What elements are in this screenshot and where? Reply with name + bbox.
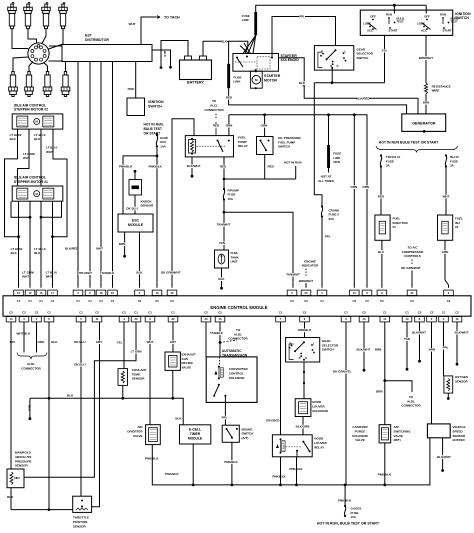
svg-text:20: 20 (305, 291, 308, 295)
svg-text:BRN: BRN (119, 242, 126, 246)
svg-text:RED: RED (378, 194, 385, 198)
svg-text:C1: C1 (122, 311, 126, 315)
svg-text:E-CELL: E-CELL (189, 428, 201, 432)
svg-text:RUN: RUN (386, 13, 392, 17)
svg-text:BLK: BLK (10, 137, 17, 141)
svg-text:PPL: PPL (10, 340, 16, 344)
svg-text:21: 21 (411, 291, 414, 295)
svg-text:PNK/BLK: PNK/BLK (165, 472, 179, 476)
svg-text:PNK/BLK: PNK/BLK (145, 457, 159, 461)
svg-text:SWITCH: SWITCH (357, 56, 369, 60)
svg-text:CONTROLS: CONTROLS (404, 254, 421, 258)
svg-text:HOT IN RUN,: HOT IN RUN, (144, 123, 164, 127)
svg-text:C2: C2 (430, 311, 434, 315)
svg-text:10: 10 (111, 291, 114, 295)
svg-text:BLK/RED: BLK/RED (356, 96, 370, 100)
svg-text:ALL TIMES: ALL TIMES (318, 179, 334, 183)
svg-text:BLK/WHT: BLK/WHT (357, 348, 371, 352)
svg-text:WHT: WHT (46, 150, 53, 154)
svg-text:(MIT): (MIT) (394, 438, 401, 442)
svg-text:VALVE: VALVE (133, 434, 143, 438)
svg-text:BLK: BLK (34, 251, 41, 255)
svg-text:SOLENOID: SOLENOID (229, 376, 246, 380)
svg-text:RED: RED (268, 164, 275, 168)
svg-text:RED: RED (226, 95, 233, 99)
svg-text:WIRE: WIRE (432, 89, 440, 93)
svg-text:YEL: YEL (382, 49, 388, 53)
svg-text:(A/T): (A/T) (242, 436, 249, 440)
svg-text:BLK: BLK (221, 39, 228, 43)
svg-text:SWITCHING: SWITCHING (394, 429, 412, 433)
svg-text:WHT: WHT (22, 275, 29, 279)
svg-text:C2: C2 (290, 299, 294, 303)
svg-text:D: D (337, 65, 339, 68)
svg-text:BLK: BLK (163, 51, 167, 58)
svg-text:SENSOR: SENSOR (15, 464, 29, 468)
svg-text:C1: C1 (47, 311, 51, 315)
svg-text:PNK/BLK: PNK/BLK (338, 499, 352, 503)
svg-text:IGNITION: IGNITION (148, 100, 164, 104)
svg-text:BUFFER: BUFFER (453, 438, 466, 442)
svg-text:BLK: BLK (51, 340, 58, 344)
svg-text:OFF: OFF (370, 14, 376, 18)
svg-text:BLK: BLK (299, 81, 306, 85)
svg-text:THROTTLE: THROTTLE (73, 516, 89, 520)
svg-text:C1: C1 (39, 299, 43, 303)
svg-text:C1: C1 (51, 299, 55, 303)
svg-text:AUTOMATIC: AUTOMATIC (222, 349, 242, 353)
svg-text:BLK/RED: BLK/RED (65, 247, 79, 251)
svg-text:C2: C2 (22, 311, 26, 315)
svg-text:C1: C1 (279, 311, 283, 315)
svg-text:GRN: GRN (442, 250, 449, 254)
svg-text:SOLENOID: SOLENOID (352, 434, 369, 438)
svg-text:C2: C2 (155, 299, 159, 303)
svg-text:DK GRN/YEL: DK GRN/YEL (333, 370, 352, 374)
svg-text:UNIT: UNIT (231, 260, 238, 264)
svg-text:LOCK: LOCK (417, 22, 425, 26)
svg-text:C1: C1 (320, 299, 324, 303)
svg-text:22: 22 (172, 317, 175, 321)
svg-text:PNK/BLK: PNK/BLK (224, 460, 238, 464)
svg-text:DK BLU: DK BLU (74, 340, 85, 344)
svg-text:SENSOR: SENSOR (455, 379, 469, 383)
svg-text:CANISTER: CANISTER (352, 425, 368, 429)
svg-text:CONVERTER: CONVERTER (229, 367, 249, 371)
svg-text:16: 16 (171, 291, 174, 295)
svg-text:C1: C1 (383, 311, 387, 315)
svg-text:TAN/WHT: TAN/WHT (286, 273, 300, 277)
svg-text:DIVERTER: DIVERTER (127, 429, 143, 433)
svg-text:C2: C2 (362, 311, 366, 315)
svg-text:PPL: PPL (325, 235, 331, 239)
svg-text:CONNECTOR: CONNECTOR (21, 366, 41, 370)
svg-text:LOUVER: LOUVER (312, 404, 325, 408)
svg-text:C1: C1 (344, 311, 348, 315)
svg-text:HOOD: HOOD (314, 437, 324, 441)
svg-text:GRY: GRY (96, 340, 102, 344)
svg-text:BLK/WHT: BLK/WHT (187, 164, 201, 168)
svg-text:DK BLU: DK BLU (74, 363, 85, 367)
svg-text:SWITCH: SWITCH (148, 105, 162, 109)
svg-text:STARTER: STARTER (264, 74, 281, 78)
svg-text:SENSOR: SENSOR (73, 524, 87, 528)
svg-text:ALCL: ALCL (210, 103, 218, 107)
svg-text:BLK: BLK (11, 251, 18, 255)
svg-text:C1: C1 (171, 311, 175, 315)
svg-text:DISTRIBUTOR: DISTRIBUTOR (85, 38, 109, 42)
svg-text:13: 13 (363, 317, 366, 321)
svg-text:CONNECTOR: CONNECTOR (204, 108, 224, 112)
svg-text:GRY/RED: GRY/RED (266, 418, 280, 422)
svg-text:EST: EST (85, 34, 93, 38)
svg-text:YEL: YEL (117, 341, 123, 345)
svg-text:C2: C2 (95, 311, 99, 315)
svg-text:SOLENOID: SOLENOID (281, 58, 300, 62)
svg-text:#2: #2 (455, 225, 459, 229)
svg-text:14: 14 (383, 317, 386, 321)
svg-text:WHT: WHT (96, 247, 103, 251)
svg-text:ORN/BLK: ORN/BLK (298, 328, 312, 332)
svg-text:ORN: ORN (261, 124, 268, 128)
svg-text:#1: #1 (393, 225, 397, 229)
svg-text:C2: C2 (455, 311, 459, 315)
svg-text:C1: C1 (405, 311, 409, 315)
svg-text:ORN: ORN (351, 185, 358, 189)
svg-text:TRANSMISSION: TRANSMISSION (222, 354, 248, 358)
svg-text:STEPPER MOTOR #2: STEPPER MOTOR #2 (14, 108, 48, 112)
svg-text:SWITCH: SWITCH (322, 348, 334, 352)
svg-text:BATTERY: BATTERY (187, 81, 205, 85)
svg-text:BRN: BRN (375, 348, 382, 352)
svg-text:SENSOR: SENSOR (132, 377, 146, 381)
svg-text:16: 16 (40, 291, 43, 295)
svg-text:MANIFOLD: MANIFOLD (15, 451, 32, 455)
svg-text:SENSOR: SENSOR (453, 434, 467, 438)
svg-text:LINK: LINK (242, 18, 250, 22)
svg-text:20: 20 (135, 317, 138, 321)
svg-text:ORN: ORN (333, 160, 340, 164)
svg-text:AIR: AIR (137, 425, 143, 429)
svg-text:PNK/BLK: PNK/BLK (149, 164, 163, 168)
svg-text:HOT IN RUN: HOT IN RUN (284, 161, 302, 165)
svg-text:BLK: BLK (7, 495, 14, 499)
svg-text:ENGINE CONTROL MODULE: ENGINE CONTROL MODULE (210, 305, 267, 310)
svg-text:SENSOR: SENSOR (141, 204, 155, 208)
svg-text:12: 12 (456, 317, 459, 321)
svg-text:23: 23 (205, 317, 208, 321)
svg-text:PPL: PPL (299, 15, 305, 19)
svg-text:BLK/ORN: BLK/ORN (296, 424, 310, 428)
svg-text:DK GRN/WHT: DK GRN/WHT (161, 271, 181, 275)
svg-text:VALVE: VALVE (355, 438, 365, 442)
svg-text:INDICATOR: INDICATOR (302, 264, 319, 268)
svg-text:10: 10 (353, 291, 356, 295)
svg-text:SOLENOID: SOLENOID (312, 409, 329, 413)
svg-text:PNK/BLK: PNK/BLK (272, 475, 286, 479)
svg-text:PPL: PPL (443, 346, 449, 350)
svg-text:10A: 10A (351, 515, 357, 519)
svg-text:RELAY: RELAY (238, 144, 248, 148)
svg-text:C1: C1 (134, 311, 138, 315)
svg-text:TAN: TAN (404, 337, 410, 341)
svg-text:18: 18 (100, 291, 103, 295)
svg-text:START: START (442, 29, 451, 33)
svg-text:BRN: BRN (429, 348, 436, 352)
svg-text:ABSOLUTE: ABSOLUTE (15, 455, 32, 459)
svg-text:16: 16 (219, 317, 222, 321)
svg-text:LOUVER: LOUVER (314, 441, 327, 445)
svg-text:14: 14 (10, 317, 13, 321)
svg-text:PNK/BLK: PNK/BLK (289, 467, 303, 471)
svg-text:RED: RED (220, 164, 227, 168)
svg-text:RUN: RUN (440, 13, 446, 17)
svg-text:LINK: LINK (234, 80, 242, 84)
svg-text:LOCK: LOCK (363, 22, 371, 26)
svg-text:DK GRN/WHT: DK GRN/WHT (401, 266, 421, 270)
svg-text:BLU: BLU (378, 250, 384, 254)
svg-text:N: N (299, 357, 301, 360)
svg-text:BLK: BLK (34, 137, 41, 141)
svg-text:PPL/WHT: PPL/WHT (79, 271, 93, 275)
svg-text:SWITCH: SWITCH (278, 145, 290, 149)
svg-text:C2: C2 (353, 299, 357, 303)
svg-text:C1: C1 (442, 311, 446, 315)
svg-text:C2: C2 (218, 311, 222, 315)
svg-text:10A: 10A (160, 144, 166, 148)
svg-text:10A: 10A (228, 197, 234, 201)
svg-text:BLK: BLK (27, 405, 31, 412)
svg-text:C2: C2 (410, 299, 414, 303)
svg-text:TO TACH: TO TACH (164, 15, 180, 19)
svg-text:BLK/WHT: BLK/WHT (412, 330, 426, 334)
svg-text:OR START: OR START (144, 131, 161, 135)
svg-text:PURGE: PURGE (355, 429, 366, 433)
svg-text:BRN/WHT: BRN/WHT (419, 56, 433, 60)
svg-text:C2: C2 (303, 311, 307, 315)
svg-text:PNK: PNK (128, 87, 135, 91)
svg-text:CONTROL: CONTROL (229, 371, 244, 375)
svg-text:BLK: BLK (175, 417, 182, 421)
svg-text:AIR: AIR (394, 425, 400, 429)
svg-text:C2: C2 (138, 299, 142, 303)
svg-text:PNK/BLK: PNK/BLK (378, 473, 392, 477)
svg-text:BLK: BLK (218, 277, 225, 281)
svg-text:RED: RED (213, 124, 220, 128)
svg-text:C1: C1 (76, 299, 80, 303)
svg-text:C2: C2 (204, 311, 208, 315)
svg-text:WHT: WHT (129, 22, 136, 26)
svg-text:IGNITION: IGNITION (455, 12, 471, 16)
svg-text:STEPPER MOTOR #1: STEPPER MOTOR #1 (14, 180, 48, 184)
svg-text:WHT/BLK: WHT/BLK (17, 332, 32, 336)
svg-text:C2: C2 (447, 299, 451, 303)
svg-text:BLK/WHT: BLK/WHT (455, 330, 469, 334)
svg-text:BRN/WHT: BRN/WHT (299, 279, 313, 283)
svg-text:WHT: WHT (443, 194, 450, 198)
svg-text:10: 10 (156, 291, 159, 295)
svg-text:ORN: ORN (362, 185, 369, 189)
svg-text:HOT IN RUN, BULB TEST OR START: HOT IN RUN, BULB TEST OR START (317, 522, 380, 526)
svg-text:TAN/BLK: TAN/BLK (210, 331, 224, 335)
svg-text:IDLE AIR CONTROL: IDLE AIR CONTROL (14, 103, 46, 107)
svg-text:START: START (388, 29, 397, 33)
svg-text:MODULE: MODULE (128, 223, 144, 227)
svg-text:TAN/WHT: TAN/WHT (217, 223, 231, 227)
svg-text:VALVE: VALVE (394, 434, 404, 438)
svg-text:C1: C1 (28, 299, 32, 303)
svg-text:CONNECTOR: CONNECTOR (401, 404, 421, 408)
svg-text:C2: C2 (418, 311, 422, 315)
svg-text:BLK: BLK (67, 394, 74, 398)
svg-text:RELAY: RELAY (314, 445, 324, 449)
svg-text:PPL: PPL (222, 415, 228, 419)
svg-text:TAN/BLK: TAN/BLK (101, 271, 115, 275)
svg-text:C2: C2 (35, 311, 39, 315)
svg-text:13: 13 (17, 291, 20, 295)
svg-text:BLK: BLK (136, 271, 143, 275)
svg-text:PRESSURE: PRESSURE (15, 459, 32, 463)
svg-text:C1: C1 (17, 299, 21, 303)
svg-text:C2: C2 (304, 299, 308, 303)
svg-text:ORN: ORN (226, 124, 233, 128)
svg-text:BRN: BRN (376, 389, 383, 393)
svg-text:12: 12 (29, 291, 32, 295)
svg-text:20A: 20A (329, 217, 335, 221)
svg-text:LT GRN: LT GRN (131, 350, 142, 354)
svg-text:C2: C2 (9, 311, 13, 315)
svg-text:C1: C1 (79, 311, 83, 315)
svg-text:SPEED: SPEED (453, 429, 464, 433)
svg-text:10: 10 (406, 317, 409, 321)
svg-text:VALVE: VALVE (182, 365, 192, 369)
svg-text:TIMER: TIMER (190, 432, 201, 436)
svg-text:17: 17 (51, 291, 54, 295)
svg-text:ESC: ESC (132, 218, 140, 222)
svg-text:CONNECTOR: CONNECTOR (228, 337, 248, 341)
svg-text:POSITION: POSITION (73, 520, 87, 524)
svg-text:C1: C1 (148, 311, 152, 315)
svg-text:BULB TEST: BULB TEST (144, 127, 163, 131)
svg-text:MODULE: MODULE (188, 436, 203, 440)
svg-text:WHT: WHT (46, 275, 53, 279)
svg-text:C1: C1 (111, 299, 115, 303)
svg-text:OFF: OFF (424, 14, 430, 18)
svg-text:MOTOR: MOTOR (264, 78, 277, 82)
svg-text:D: D (305, 357, 307, 360)
svg-text:C2: C2 (365, 299, 369, 303)
svg-text:GENERATOR: GENERATOR (412, 122, 436, 126)
svg-text:BRN: BRN (423, 101, 430, 105)
svg-text:WHT: WHT (147, 340, 154, 344)
svg-text:C2: C2 (380, 299, 384, 303)
svg-text:C2: C2 (170, 299, 174, 303)
svg-text:TEST: TEST (397, 20, 404, 24)
svg-text:C1: C1 (99, 299, 103, 303)
svg-text:VEHICLE: VEHICLE (453, 425, 466, 429)
svg-text:ORG: ORG (38, 340, 46, 344)
svg-text:TO: TO (212, 99, 217, 103)
svg-text:PNK/BLK: PNK/BLK (119, 164, 133, 168)
svg-text:HOT IN RUN BULB TEST OR START: HOT IN RUN BULB TEST OR START (379, 141, 439, 145)
svg-text:TAN: TAN (219, 241, 225, 245)
svg-text:ALDL: ALDL (27, 362, 35, 366)
svg-text:BLK/WHT: BLK/WHT (437, 455, 451, 459)
svg-text:DK BLU: DK BLU (126, 206, 137, 210)
svg-text:GRY: GRY (170, 340, 176, 344)
svg-text:WHT: WHT (23, 156, 30, 160)
svg-text:TEST: TEST (451, 20, 458, 24)
svg-text:C1: C1 (88, 299, 92, 303)
svg-text:HOOD: HOOD (312, 400, 322, 404)
